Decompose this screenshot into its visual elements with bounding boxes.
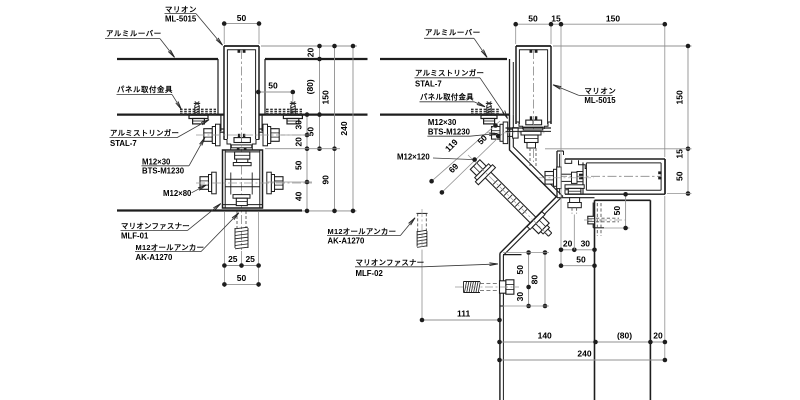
mullion bottom mouth bosses	[238, 134, 240, 138]
svg-text:25: 25	[245, 254, 255, 264]
corner wall plate inner	[503, 115, 562, 256]
stringer channel STAL-7 (horizontal mullion)	[556, 151, 558, 198]
svg-text:50: 50	[528, 13, 538, 23]
svg-text:25: 25	[228, 254, 238, 264]
base line (structure)	[117, 209, 302, 211]
svg-text:50: 50	[237, 273, 247, 283]
wall anchor M12 horizontal	[463, 282, 465, 293]
mouth bolt axis	[538, 177, 594, 179]
dim column x307 (30/20/50/40)	[306, 115, 308, 211]
tick y228	[604, 227, 630, 229]
dim 50 column bottom (x626)	[625, 194, 627, 228]
dim column x319 (20/(80)/50)	[319, 46, 321, 149]
right view: louver/panel bottom line	[380, 113, 510, 115]
vertical anchor AK-A1270 (right view)	[417, 212, 428, 214]
dim 50 right of mullion	[258, 91, 293, 93]
column anchor axis	[584, 219, 626, 221]
dim 50 above mullion	[224, 23, 259, 25]
mullion top screw bosses	[238, 49, 241, 52]
svg-text:20: 20	[563, 238, 573, 248]
svg-text:M12×30: M12×30	[142, 157, 171, 166]
bolt head inside mullion mouth	[234, 138, 250, 143]
svg-text:20: 20	[653, 331, 663, 341]
dim column x353 (240)	[352, 46, 354, 211]
right mullion top screw bosses	[530, 49, 533, 52]
brace axis line	[468, 155, 549, 236]
right dim column x688 (150/15/50)	[687, 46, 689, 194]
extension x664.8	[664, 27, 666, 158]
svg-text:240: 240	[577, 349, 591, 359]
svg-text:ML-5015: ML-5015	[584, 96, 616, 105]
bolt into mouth (horizontal)	[545, 172, 554, 185]
tick y306	[503, 305, 549, 307]
mullion centre line	[241, 50, 243, 250]
corner bolt axis	[487, 132, 545, 134]
tick y193.5	[667, 193, 692, 195]
dim 69/50 diagonal chain	[442, 134, 502, 192]
svg-text:50: 50	[293, 160, 303, 170]
aluminium stringer STAL-7 left angle	[220, 115, 222, 132]
svg-text:30: 30	[293, 120, 303, 130]
bolt M12x30 left (BTS-M1230)	[204, 129, 213, 142]
dim 119 diagonal	[432, 121, 500, 181]
left view: louver right blade end cap	[264, 59, 266, 115]
horizontal mullion left mouth cap	[582, 162, 584, 194]
bolt below vertical mullion	[521, 131, 541, 135]
svg-text:M12オールアンカー: M12オールアンカー	[328, 227, 397, 236]
svg-text:150: 150	[674, 90, 684, 104]
dim column x334 (150/90)	[334, 46, 336, 211]
bolt M12x80 through bolt	[200, 177, 209, 190]
mullion ML-5015 (left view) tube outline	[223, 46, 225, 139]
tick y135	[281, 134, 312, 136]
left view: louver/panel bottom line (right segment)	[259, 113, 368, 115]
stringer bottom plate	[557, 197, 595, 199]
concrete corner top edge	[503, 254, 522, 256]
panel anchor (right view)	[486, 102, 492, 104]
svg-text:AK-A1270: AK-A1270	[136, 253, 173, 262]
column top edge	[595, 199, 651, 201]
svg-text:80: 80	[529, 275, 539, 285]
bolt axis line	[196, 134, 312, 136]
panel fixing bracket hatch (right view)	[471, 108, 474, 110]
svg-text:30: 30	[515, 292, 525, 302]
dim 140/(80)/20 bottom	[500, 341, 665, 343]
dim 50 bottom	[561, 265, 595, 267]
M12x80 axis line	[196, 182, 312, 184]
bolt M12x30 right (BTS-M1230)	[271, 129, 280, 142]
concrete wall face below	[499, 306, 501, 400]
right mullion centre line	[533, 50, 535, 162]
panel anchor right	[290, 102, 296, 104]
svg-text:30: 30	[581, 238, 591, 248]
svg-text:マリオン: マリオン	[165, 5, 197, 14]
MLF-01 top bolt	[235, 152, 250, 159]
dim 50 below base	[224, 283, 258, 285]
svg-text:パネル取付金具: パネル取付金具	[420, 93, 474, 102]
column face below soffit	[594, 200, 596, 400]
mullion fastener MLF-01 bracket	[223, 150, 263, 208]
svg-text:AK-A1270: AK-A1270	[328, 237, 365, 246]
svg-text:90: 90	[321, 175, 331, 185]
column anchor L-bracket	[592, 203, 594, 228]
svg-text:50: 50	[237, 13, 247, 23]
right view: louver blade end cap	[509, 59, 511, 115]
left view: louver left blade end cap	[217, 59, 219, 115]
svg-text:アルミルーバー: アルミルーバー	[425, 28, 481, 37]
svg-text:50: 50	[576, 254, 586, 264]
svg-text:240: 240	[339, 121, 349, 135]
svg-text:STAL-7: STAL-7	[110, 139, 137, 148]
panel bracket nut left	[189, 115, 208, 118]
bolt below horizontal mullion	[565, 185, 584, 189]
svg-text:M12×30: M12×30	[428, 118, 457, 127]
dim 50/30 wall chain (x528)	[528, 253, 530, 307]
MLF-01 bottom anchor nut	[233, 195, 250, 199]
stringer plate under vertical mullion	[506, 127, 552, 129]
aluminium stringer right angle	[261, 115, 263, 132]
corner bolt M12x30	[492, 127, 501, 140]
svg-text:BTS-M1230: BTS-M1230	[142, 167, 185, 176]
mouth bottom lip steps	[565, 190, 572, 194]
extension tick top y46	[261, 45, 357, 47]
tick y46 right	[553, 45, 692, 47]
svg-text:150: 150	[606, 13, 620, 23]
svg-text:20: 20	[293, 137, 303, 147]
diagonal brace bolt M12x120	[467, 156, 542, 231]
svg-text:BTS-M1230: BTS-M1230	[428, 127, 471, 136]
anchor AK-A1270 shaft below base	[236, 211, 238, 228]
dim 111 bottom	[421, 250, 423, 322]
dim 240 bottom	[500, 359, 665, 361]
panel fixing bracket hatch left	[180, 108, 183, 110]
right view: louver top line	[380, 58, 507, 60]
mouth top lip steps	[565, 159, 572, 163]
wall anchor axis	[455, 286, 519, 288]
left view: louver/panel bottom line (left segment)	[117, 113, 224, 115]
MLF-02 wall plate vertical leg	[499, 253, 501, 306]
svg-text:STAL-7: STAL-7	[415, 80, 442, 89]
horizontal mullion right end bosses	[658, 171, 661, 174]
svg-text:140: 140	[538, 331, 552, 341]
tick y252.5	[503, 252, 549, 254]
svg-text:15: 15	[674, 149, 684, 159]
glass face extension line	[560, 27, 562, 267]
panel bracket nut (right view)	[481, 115, 497, 118]
svg-text:アルミストリンガー: アルミストリンガー	[110, 129, 179, 138]
panel anchor left	[194, 102, 200, 104]
svg-text:40: 40	[293, 191, 303, 201]
svg-text:(80): (80)	[305, 79, 315, 94]
svg-text:アルミルーバー: アルミルーバー	[106, 29, 162, 38]
mullion bottom mouth lips	[224, 136, 231, 150]
svg-text:M12×120: M12×120	[397, 152, 430, 161]
dim 25/25 below base	[223, 212, 225, 287]
svg-text:50: 50	[612, 206, 622, 216]
svg-text:MLF-01: MLF-01	[121, 232, 149, 241]
svg-text:20: 20	[306, 48, 316, 58]
dim 80 wall (x545)	[544, 253, 546, 307]
tick y182	[266, 181, 312, 183]
svg-text:50: 50	[674, 171, 684, 181]
dim 20/30 bottom	[561, 249, 595, 251]
right mullion bottom mouth	[516, 119, 523, 130]
svg-text:50: 50	[268, 81, 278, 91]
svg-text:M12オールアンカー: M12オールアンカー	[136, 243, 205, 252]
panel bracket nut right	[283, 115, 302, 118]
left view: aluminum louver top line (left segment)	[117, 58, 218, 60]
left view: aluminum louver top line (right segment)	[265, 58, 368, 60]
svg-text:マリオンファスナー: マリオンファスナー	[356, 258, 425, 267]
horizontal mullion centre line	[558, 175, 662, 177]
svg-text:15: 15	[551, 13, 561, 23]
svg-text:マリオン: マリオン	[584, 87, 616, 96]
tick y148.8 (glass face)	[545, 148, 692, 150]
horizontal mullion ML-5015 tube	[565, 158, 665, 160]
svg-text:アルミストリンガー: アルミストリンガー	[415, 69, 484, 78]
svg-text:パネル取付金具: パネル取付金具	[117, 85, 173, 94]
tick y148.7	[265, 148, 340, 150]
svg-text:M12×80: M12×80	[163, 189, 192, 198]
right mullion ML-5015 tube	[515, 46, 517, 124]
svg-text:150: 150	[321, 90, 331, 104]
panel fixing bracket hatch right	[266, 108, 269, 110]
svg-text:111: 111	[457, 308, 471, 318]
column anchor bolt head	[588, 216, 595, 224]
svg-text:MLF-02: MLF-02	[356, 269, 384, 278]
corner wall plate outer	[500, 115, 556, 254]
svg-text:マリオンファスナー: マリオンファスナー	[121, 222, 190, 231]
svg-text:ML-5015: ML-5015	[165, 15, 197, 24]
column anchor embedded (dashed)	[596, 203, 598, 236]
svg-text:(80): (80)	[617, 331, 632, 341]
dim 50/15/150 top	[516, 23, 665, 25]
svg-text:50: 50	[515, 265, 525, 275]
